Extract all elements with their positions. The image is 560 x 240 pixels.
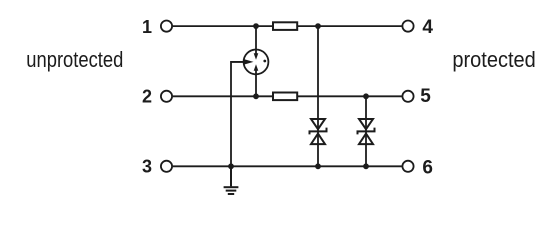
terminal 2	[161, 91, 172, 102]
junction line3 ground tap	[228, 163, 234, 169]
wire TVS1 branch from line1 down	[317, 26, 319, 166]
svg-text:1: 1	[142, 17, 152, 37]
node label unprotected	[26, 47, 123, 72]
pin number 2	[142, 87, 152, 107]
terminal 5	[402, 91, 413, 102]
wire GDT bottom lead to line2	[255, 71, 257, 97]
terminal 4	[402, 21, 413, 32]
pin number 4	[422, 17, 433, 38]
ground	[224, 166, 239, 194]
wire ground branch vertical x=231	[231, 62, 245, 166]
terminal 6	[402, 161, 413, 172]
wire GDT left lead horizontal	[232, 61, 245, 63]
suppressor diode D2 (bidirectional TVS)	[358, 119, 375, 144]
junction line1 GDT tap	[253, 23, 259, 29]
junction line2 TVS2 tap	[363, 93, 369, 99]
terminal 1	[161, 21, 172, 32]
svg-text:6: 6	[422, 157, 433, 178]
gas discharge tube F1	[243, 50, 268, 75]
suppressor diode D1 (bidirectional TVS)	[310, 119, 327, 144]
pin number 1	[142, 17, 152, 37]
junction line1 TVS1 tap	[315, 23, 321, 29]
svg-text:2: 2	[142, 87, 152, 107]
pin number 3	[142, 156, 152, 176]
svg-text:4: 4	[422, 17, 433, 38]
junction line3 TVS1 tap	[315, 163, 321, 169]
resistor R1	[273, 22, 297, 30]
pin number 6	[422, 157, 433, 178]
wire line2 resistor R2 to terminal 5	[298, 95, 402, 97]
wire line1 resistor R1 to terminal 4	[298, 25, 402, 27]
junction line2 GDT tap	[253, 93, 259, 99]
svg-text:protected: protected	[452, 47, 535, 72]
junction line3 TVS2 tap	[363, 163, 369, 169]
svg-text:3: 3	[142, 156, 152, 176]
wire line3 terminal3 to terminal 6	[173, 165, 402, 167]
pin number 5	[420, 86, 431, 107]
wire line2 terminal2 to resistor R2	[173, 95, 273, 97]
wire GDT top lead from line1	[255, 26, 257, 54]
resistor R2	[273, 93, 297, 101]
wire TVS2 branch from line2 down	[365, 96, 367, 166]
node label protected	[452, 47, 535, 72]
svg-text:unprotected: unprotected	[26, 47, 123, 72]
svg-text:5: 5	[420, 86, 431, 107]
terminal 3	[161, 161, 172, 172]
wire line1 terminal1 to resistor R1	[173, 25, 273, 27]
